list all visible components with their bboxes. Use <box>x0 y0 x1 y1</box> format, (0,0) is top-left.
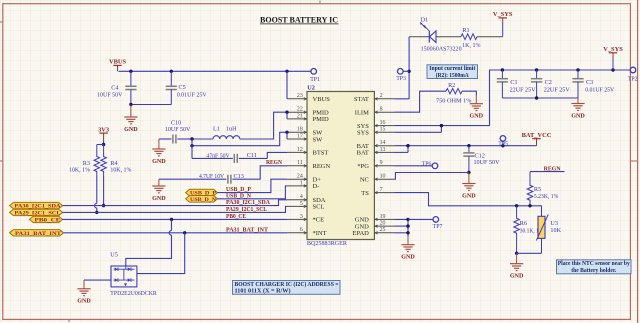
svg-text:PA31_BAT_INT: PA31_BAT_INT <box>226 227 268 233</box>
svg-text:GND: GND <box>152 159 166 165</box>
svg-text:REGN: REGN <box>266 159 282 166</box>
svg-text:L1: L1 <box>213 126 220 133</box>
svg-text:22UF 25V: 22UF 25V <box>510 86 537 93</box>
svg-text:C2: C2 <box>545 79 552 86</box>
svg-text:VBUS: VBUS <box>313 96 331 103</box>
svg-text:10: 10 <box>380 174 386 180</box>
svg-text:21: 21 <box>297 113 303 119</box>
svg-text:TP1: TP1 <box>310 77 320 83</box>
svg-text:GND: GND <box>401 255 415 261</box>
svg-text:*INT: *INT <box>313 230 327 237</box>
svg-text:D-: D- <box>313 183 320 190</box>
svg-text:47nF 50V: 47nF 50V <box>206 153 230 159</box>
svg-text:TP3: TP3 <box>396 76 406 82</box>
svg-text:PA29_I2C1_SCL: PA29_I2C1_SCL <box>226 207 267 213</box>
svg-text:GND: GND <box>571 113 585 119</box>
svg-text:1: 1 <box>300 180 303 186</box>
svg-text:GND: GND <box>462 193 476 199</box>
svg-text:STAT: STAT <box>354 96 369 103</box>
svg-text:GND: GND <box>77 299 91 305</box>
svg-text:BQ25883RGER: BQ25883RGER <box>307 240 348 247</box>
svg-text:BAT: BAT <box>357 150 369 157</box>
svg-text:10K, 1%: 10K, 1% <box>69 167 90 174</box>
svg-text:ILIM: ILIM <box>355 110 369 117</box>
svg-text:USB_D_N: USB_D_N <box>190 197 216 203</box>
svg-text:BTST: BTST <box>313 150 329 157</box>
svg-text:C5: C5 <box>179 84 186 91</box>
svg-text:8: 8 <box>380 107 383 113</box>
svg-text:7: 7 <box>380 187 383 193</box>
svg-text:U2: U2 <box>307 85 315 92</box>
svg-text:TP2: TP2 <box>628 76 638 82</box>
svg-text:GND: GND <box>510 274 524 280</box>
svg-text:23: 23 <box>297 93 303 99</box>
svg-text:PB0_CE: PB0_CE <box>35 218 61 224</box>
svg-text:0.01UF 25V: 0.01UF 25V <box>585 86 614 93</box>
svg-text:(R2): 1500mA: (R2): 1500mA <box>436 72 470 79</box>
svg-text:9: 9 <box>380 160 383 166</box>
svg-text:SW: SW <box>313 136 324 143</box>
svg-text:18: 18 <box>297 127 303 133</box>
svg-text:15: 15 <box>380 127 386 133</box>
svg-text:1101 011X (X = R/W): 1101 011X (X = R/W) <box>235 288 291 295</box>
svg-text:3: 3 <box>300 214 303 220</box>
svg-text:the Battery holder.: the Battery holder. <box>571 268 616 274</box>
svg-text:13: 13 <box>380 147 386 153</box>
svg-text:SYS: SYS <box>357 130 369 137</box>
svg-text:14: 14 <box>380 140 386 146</box>
svg-text:BOOST CHARGER IC (I2C) ADDRESS: BOOST CHARGER IC (I2C) ADDRESS = <box>235 281 340 288</box>
svg-text:GND: GND <box>470 114 484 120</box>
svg-text:REGN: REGN <box>544 166 561 173</box>
svg-text:6: 6 <box>300 227 303 233</box>
svg-text:PA29_I2C1_SCL: PA29_I2C1_SCL <box>15 211 61 217</box>
svg-text:10K: 10K <box>550 227 561 234</box>
svg-text:BAT_VCC: BAT_VCC <box>522 132 552 139</box>
svg-text:5: 5 <box>300 201 303 207</box>
svg-text:TS: TS <box>361 190 369 197</box>
svg-text:PMID: PMID <box>313 116 330 123</box>
svg-text:22: 22 <box>297 107 303 113</box>
svg-text:22UF 25V: 22UF 25V <box>544 86 571 93</box>
svg-text:D1: D1 <box>421 17 429 24</box>
svg-text:0.01UF 25V: 0.01UF 25V <box>177 91 208 98</box>
svg-text:4: 4 <box>300 194 303 200</box>
svg-text:17: 17 <box>297 133 303 139</box>
svg-text:10K, 1%: 10K, 1% <box>110 167 131 174</box>
svg-text:V_SYS: V_SYS <box>603 46 623 53</box>
svg-text:Input current limit: Input current limit <box>429 66 475 72</box>
svg-text:11: 11 <box>297 160 303 166</box>
svg-text:750 OHM 1%: 750 OHM 1% <box>436 99 472 105</box>
svg-text:REGN: REGN <box>313 163 331 170</box>
svg-text:TP6: TP6 <box>422 161 432 167</box>
svg-text:BOOST BATTERY IC: BOOST BATTERY IC <box>260 14 338 24</box>
svg-text:R1: R1 <box>462 27 469 34</box>
svg-text:TPD2E2U06DCKR: TPD2E2U06DCKR <box>110 291 157 297</box>
svg-text:U3: U3 <box>550 220 558 227</box>
svg-text:150060AS73220: 150060AS73220 <box>421 46 462 52</box>
svg-text:SCL: SCL <box>313 204 325 211</box>
svg-text:TP5: TP5 <box>498 141 508 147</box>
svg-text:4.7UF 10V: 4.7UF 10V <box>199 173 224 180</box>
svg-text:12: 12 <box>297 147 303 153</box>
svg-text:10UF 50V: 10UF 50V <box>165 126 191 133</box>
svg-text:10UF 50V: 10UF 50V <box>97 91 123 98</box>
svg-text:GND: GND <box>124 127 138 133</box>
svg-text:PB0_CE: PB0_CE <box>226 214 246 220</box>
svg-text:PA31_BAT_INT: PA31_BAT_INT <box>15 231 61 237</box>
svg-text:Place this NTC sensor near by: Place this NTC sensor near by <box>558 261 630 267</box>
svg-text:U5: U5 <box>110 251 118 258</box>
svg-text:VBUS: VBUS <box>109 59 126 66</box>
svg-text:16: 16 <box>380 120 386 126</box>
svg-text:PA30_I2C1_SDA: PA30_I2C1_SDA <box>226 200 271 206</box>
svg-text:*PG: *PG <box>357 163 369 170</box>
svg-text:R2: R2 <box>448 82 455 89</box>
svg-text:GND: GND <box>152 196 166 202</box>
svg-text:20: 20 <box>380 221 386 227</box>
svg-text:24: 24 <box>297 174 303 180</box>
svg-text:V_SYS: V_SYS <box>493 11 513 18</box>
svg-text:USB_D_N: USB_D_N <box>226 193 252 199</box>
svg-text:TP7: TP7 <box>433 224 443 230</box>
svg-text:10UF 50V: 10UF 50V <box>474 159 501 166</box>
svg-text:*CE: *CE <box>313 217 325 224</box>
svg-text:3V3: 3V3 <box>98 126 109 133</box>
svg-text:USB_D_P: USB_D_P <box>226 187 251 193</box>
svg-text:19: 19 <box>380 214 386 220</box>
svg-text:5.23K, 1%: 5.23K, 1% <box>534 193 559 200</box>
svg-text:C1: C1 <box>510 79 517 86</box>
svg-text:EPAD: EPAD <box>353 230 370 237</box>
svg-text:1uH: 1uH <box>226 126 237 133</box>
svg-text:R6: R6 <box>520 220 527 227</box>
svg-text:C13: C13 <box>234 173 244 180</box>
svg-text:C11: C11 <box>247 152 257 159</box>
svg-text:25: 25 <box>380 227 386 233</box>
svg-text:NC: NC <box>360 177 369 184</box>
svg-text:C3: C3 <box>586 79 593 86</box>
svg-text:1K, 1%: 1K, 1% <box>462 42 480 49</box>
svg-text:2: 2 <box>380 93 383 99</box>
